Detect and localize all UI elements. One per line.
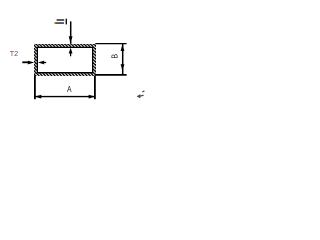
dimension B extension line (bottom) xyxy=(95,74,126,76)
inner outline xyxy=(37,47,92,72)
svg-text:A: A xyxy=(67,84,72,94)
B top arrow xyxy=(121,44,125,51)
svg-text:T2: T2 xyxy=(10,49,18,58)
B bottom arrow xyxy=(121,64,125,71)
dimension A extension line (right) xyxy=(94,76,96,100)
T1 leader line xyxy=(70,21,72,43)
T2 leader line xyxy=(22,61,28,63)
hollow rectangular tube cross-section drawing xyxy=(0,0,146,114)
label T1 (drawn strokes to mimic tiny ClearType text) xyxy=(54,19,67,25)
dimension B line xyxy=(122,44,124,75)
dimension B extension line (top) xyxy=(95,43,126,45)
T1 inner arrow (points up at inner face) xyxy=(69,48,73,54)
tube wall (hatched section between outer and inner rectangles) xyxy=(34,44,96,76)
svg-text:B: B xyxy=(110,54,120,59)
A right arrow xyxy=(89,95,96,99)
dimension A extension line (left) xyxy=(34,76,36,100)
T2 inner arrow (points left at inner face) xyxy=(38,61,44,65)
T1 outer arrow (points down at top face) xyxy=(69,36,73,43)
A left arrow xyxy=(34,95,41,99)
dimension A line xyxy=(34,96,95,98)
T2 outer arrow (points right at left face) xyxy=(28,61,34,65)
mouse cursor mark (gray arrow, bottom right) xyxy=(137,91,145,99)
